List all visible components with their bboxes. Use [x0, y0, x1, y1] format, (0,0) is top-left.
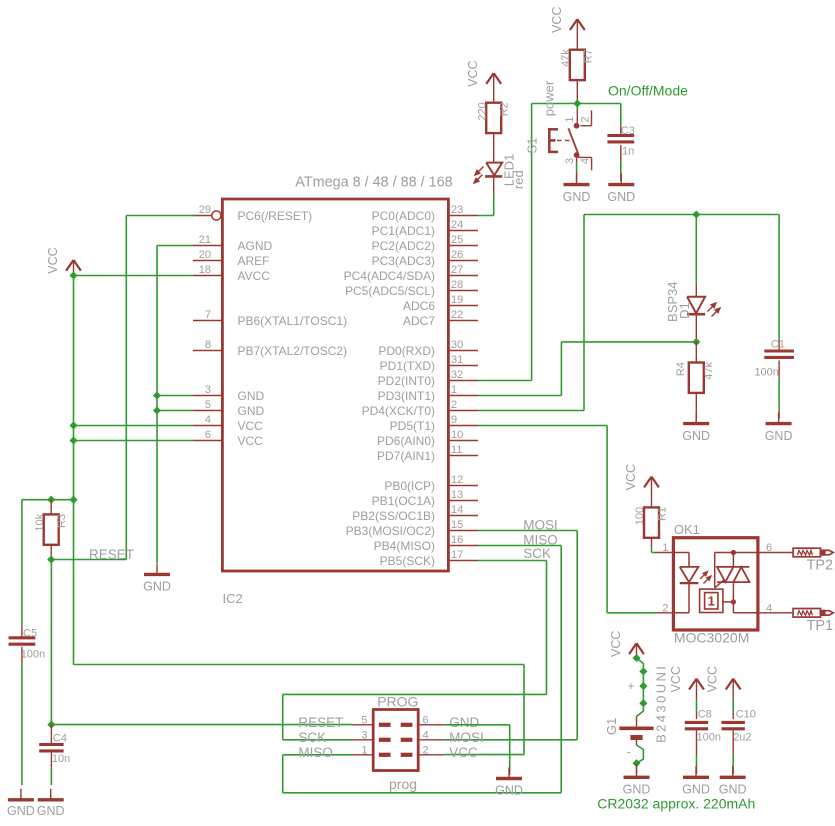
PROG pin 2 VCC: [418, 754, 444, 756]
resistor R1 100: [644, 507, 659, 537]
power VCC above C8: [689, 679, 696, 690]
svg-text:D1: D1: [677, 302, 692, 319]
diode LED1 red: [486, 163, 502, 176]
pin 17 PB5(SCK): [448, 560, 478, 562]
OK1 pin 6 internal: [715, 552, 758, 554]
power VCC above R1: [644, 477, 651, 488]
wire AGND vertical: [156, 246, 158, 564]
svg-text:MOSI: MOSI: [523, 518, 558, 533]
svg-text:RESET: RESET: [298, 715, 343, 730]
test point TP1: [793, 609, 833, 618]
wire battery to GND: [636, 763, 638, 774]
resistor R3 10k: [44, 514, 59, 544]
svg-text:TP2: TP2: [807, 558, 834, 574]
svg-text:22: 22: [451, 309, 463, 321]
svg-text:PC4(ADC4/SDA): PC4(ADC4/SDA): [344, 269, 435, 283]
pin 24 PC1(ADC1): [448, 230, 478, 232]
svg-text:S1: S1: [525, 138, 540, 154]
battery G1 B2430UNI: [636, 717, 638, 727]
svg-text:20: 20: [199, 249, 211, 261]
PROG pads row 2: [379, 738, 391, 742]
svg-text:4: 4: [205, 414, 211, 426]
svg-text:220: 220: [476, 102, 488, 120]
svg-text:47k: 47k: [560, 49, 572, 67]
svg-text:C3: C3: [621, 125, 635, 137]
svg-text:R3: R3: [56, 514, 68, 528]
wire D1 top: [695, 215, 697, 284]
svg-text:31: 31: [451, 354, 463, 366]
wire GND to pin 3: [157, 395, 194, 397]
wire MOSI vertical: [576, 531, 578, 740]
svg-text:21: 21: [199, 234, 211, 246]
svg-text:B2430UNI: B2430UNI: [654, 664, 669, 743]
svg-text:R7: R7: [582, 49, 594, 63]
svg-text:PD2(INT0): PD2(INT0): [378, 374, 435, 388]
svg-text:PD0(RXD): PD0(RXD): [378, 344, 435, 358]
node battery bottom junction: [632, 759, 640, 767]
svg-text:VCC: VCC: [624, 464, 638, 490]
svg-text:+: +: [628, 679, 635, 693]
wire GND to pin 5: [157, 410, 194, 412]
ground GND under battery: [636, 766, 638, 777]
pin 28 PC5(ADC5/SCL): [448, 290, 478, 292]
svg-text:8: 8: [205, 339, 211, 351]
pin 4 VCC: [193, 425, 222, 427]
svg-text:12: 12: [451, 474, 463, 486]
svg-text:ATmega 8 / 48 / 88 / 168: ATmega 8 / 48 / 88 / 168: [295, 175, 452, 191]
ground GND below IC: [156, 563, 158, 574]
LED1 emission arrows: [474, 167, 484, 184]
pin 20 AREF: [193, 260, 222, 262]
PROG pin 3 SCK: [352, 739, 373, 741]
svg-text:100: 100: [634, 507, 646, 525]
svg-text:28: 28: [451, 279, 463, 291]
wire C1 to GND: [778, 360, 780, 379]
wire battery jog: [637, 658, 644, 717]
power VCC above C10: [726, 679, 733, 690]
svg-text:3: 3: [564, 158, 576, 164]
resistor R2 220: [486, 103, 501, 133]
OK1 driver box 1: [700, 589, 723, 612]
PROG pin 4 MOSI: [418, 739, 444, 741]
svg-text:10k: 10k: [34, 513, 46, 531]
node C4 junction: [47, 721, 55, 729]
OK1 pin 6 stub to TP2: [758, 552, 793, 554]
svg-text:32: 32: [451, 369, 463, 381]
ground GND under C4: [50, 789, 52, 800]
svg-text:AGND: AGND: [238, 239, 273, 253]
resistor R4 47k: [695, 342, 697, 362]
node R4 junction: [692, 338, 700, 346]
svg-text:17: 17: [451, 549, 463, 561]
pin 9 PD5(T1): [448, 425, 478, 427]
svg-text:27: 27: [451, 264, 463, 276]
svg-text:1: 1: [662, 542, 668, 554]
wire On/Off/Mode right to C3: [577, 103, 621, 105]
ground GND under C10: [732, 766, 734, 777]
svg-text:PB5(SCK): PB5(SCK): [380, 554, 435, 568]
wire RESET horizontal: [51, 559, 126, 561]
pin 25 PC2(ADC2): [448, 245, 478, 247]
svg-text:6: 6: [423, 715, 429, 727]
node RESET junction: [47, 555, 55, 563]
pin 10 PD6(AIN0): [448, 440, 478, 442]
OK1 pin 4 stub to TP1: [758, 612, 793, 614]
pin 31 PD1(TXD): [448, 365, 478, 367]
PROG pin 6 GND: [418, 724, 444, 726]
svg-text:MOSI: MOSI: [449, 730, 484, 745]
wire R3 bottom stub: [50, 545, 52, 560]
ground GND under R4: [695, 413, 697, 424]
svg-text:PD5(T1): PD5(T1): [390, 419, 435, 433]
capacitor C1 100n: [778, 215, 780, 341]
ground GND under S1: [576, 174, 578, 185]
connector PROG box: [373, 710, 418, 771]
node VCC pin6 junction: [69, 436, 77, 444]
switch S1 power: [576, 104, 578, 111]
wire C4 bottom: [50, 753, 52, 768]
pin 13 PB1(OC1A): [448, 500, 478, 502]
svg-text:CR2032 approx. 220mAh: CR2032 approx. 220mAh: [597, 796, 755, 812]
wire VCC to pin 4: [74, 425, 194, 427]
pin 2 PD4(XCK/T0): [448, 410, 478, 412]
wire On/Off/Mode left: [532, 103, 578, 105]
diode D1 BSP34: [687, 297, 705, 313]
svg-text:1: 1: [451, 384, 457, 396]
pin 30 PD0(RXD): [448, 350, 478, 352]
wire RESET down to C4: [50, 560, 52, 725]
svg-text:power: power: [542, 80, 557, 116]
svg-text:PB0(ICP): PB0(ICP): [384, 479, 435, 493]
svg-text:PC2(ADC2): PC2(ADC2): [372, 239, 435, 253]
svg-text:16: 16: [451, 534, 463, 546]
svg-text:IC2: IC2: [223, 591, 243, 606]
svg-text:PD6(AIN0): PD6(AIN0): [377, 434, 435, 448]
wire R7 to junction: [576, 80, 578, 103]
svg-text:GND: GND: [682, 429, 710, 443]
wire C8 top: [696, 700, 698, 712]
wire S1 to GND: [576, 155, 578, 162]
svg-text:PC5(ADC5/SCL): PC5(ADC5/SCL): [345, 284, 435, 298]
svg-text:C5: C5: [23, 627, 37, 639]
wire MISO vertical: [560, 546, 562, 793]
svg-text:7: 7: [205, 309, 211, 321]
svg-text:PD4(XCK/T0): PD4(XCK/T0): [362, 404, 435, 418]
pin 7 PB6(XTAL1/TOSC1): [193, 320, 222, 322]
capacitor C4 10n: [50, 725, 52, 744]
wire battery bottom jog: [636, 740, 638, 745]
D1 emission arrows: [708, 303, 721, 317]
svg-text:100n: 100n: [697, 731, 721, 743]
svg-text:18: 18: [199, 264, 211, 276]
wire VCC to C5 branch: [22, 499, 74, 501]
wire MOSI from pin 15: [478, 530, 577, 532]
wire C10 top: [732, 700, 734, 712]
svg-text:6: 6: [766, 542, 772, 554]
svg-text:29: 29: [199, 204, 211, 216]
wire AGND from pin 21: [157, 245, 194, 247]
svg-text:19: 19: [451, 294, 463, 306]
svg-text:3: 3: [205, 384, 211, 396]
svg-text:R2: R2: [499, 102, 511, 116]
svg-text:PB3(MOSI/OC2): PB3(MOSI/OC2): [346, 524, 435, 538]
svg-text:SCK: SCK: [298, 730, 326, 745]
node GND pin3 junction: [153, 391, 161, 399]
svg-text:15: 15: [451, 519, 463, 531]
ground GND under C5: [20, 789, 22, 800]
svg-text:MISO: MISO: [298, 745, 333, 760]
svg-text:5: 5: [361, 715, 367, 727]
node battery top junction: [632, 654, 640, 662]
svg-text:2: 2: [423, 745, 429, 757]
svg-text:GND: GND: [563, 190, 591, 204]
capacitor C5 100n: [21, 625, 23, 638]
capacitor C10 2u2: [722, 721, 745, 724]
svg-text:13: 13: [451, 489, 463, 501]
pin 29 PC6(/RESET): [193, 215, 212, 217]
svg-text:VCC: VCC: [449, 745, 478, 760]
opto-triac OK1 MOC3020M: [673, 538, 758, 630]
svg-text:MOC3020M: MOC3020M: [674, 630, 749, 646]
svg-text:VCC: VCC: [466, 60, 480, 86]
svg-text:9: 9: [451, 414, 457, 426]
svg-text:C1: C1: [771, 339, 785, 351]
svg-text:C8: C8: [698, 709, 712, 721]
power VCC above R7: [570, 19, 577, 30]
wire SCK down to PROG pin 3: [282, 694, 284, 739]
svg-text:GND: GND: [682, 783, 710, 797]
svg-text:GND: GND: [623, 783, 651, 797]
pin 16 PB4(MISO): [448, 545, 478, 547]
svg-text:GND: GND: [495, 784, 523, 798]
ground GND under C3: [620, 174, 622, 185]
svg-text:PB4(MISO): PB4(MISO): [374, 539, 435, 553]
pin 26 PC3(ADC3): [448, 260, 478, 262]
S1 lever: [568, 128, 578, 153]
resistor R7 47k: [570, 50, 585, 80]
OK1 gate line: [714, 553, 716, 588]
svg-text:prog: prog: [389, 776, 417, 792]
svg-text:GND: GND: [607, 190, 635, 204]
svg-text:-: -: [627, 745, 631, 759]
pin 8 PB7(XTAL2/TOSC2): [193, 350, 222, 352]
svg-text:PB7(XTAL2/TOSC2): PB7(XTAL2/TOSC2): [238, 344, 348, 358]
svg-text:24: 24: [451, 219, 463, 231]
svg-text:PD1(TXD): PD1(TXD): [380, 359, 435, 373]
pin 5 GND: [193, 410, 222, 412]
pin 11 PD7(AIN1): [448, 455, 478, 457]
svg-text:R1: R1: [657, 507, 669, 521]
ground GND under C8: [695, 766, 697, 777]
wire R3 top stub: [50, 500, 52, 515]
wire VCC bottom run to PROG: [74, 664, 525, 666]
svg-text:4: 4: [579, 158, 591, 164]
svg-text:ADC7: ADC7: [403, 314, 435, 328]
node VCC junction left: [69, 271, 77, 279]
PROG pads row 3: [379, 753, 391, 757]
svg-text:PD3(INT1): PD3(INT1): [378, 389, 435, 403]
svg-text:6: 6: [205, 429, 211, 441]
svg-text:C10: C10: [736, 709, 756, 721]
S1 pin 2 bracket: [581, 125, 592, 127]
pin 27 PC4(ADC4/SDA): [448, 275, 478, 277]
pin 32 PD2(INT0): [448, 380, 478, 382]
capacitor C8 100n: [685, 721, 708, 724]
node GND pin5 junction: [153, 406, 161, 414]
svg-text:2: 2: [662, 602, 668, 614]
node D1 top junction: [692, 210, 700, 218]
test point TP2: [793, 548, 833, 557]
svg-text:SCK: SCK: [523, 546, 551, 561]
svg-text:AVCC: AVCC: [238, 269, 271, 283]
svg-text:R4: R4: [675, 362, 687, 376]
node VCC R3 branch junction: [69, 496, 77, 504]
svg-text:23: 23: [451, 204, 463, 216]
svg-text:VCC: VCC: [609, 631, 623, 657]
svg-text:1: 1: [708, 594, 715, 609]
svg-text:11: 11: [451, 444, 462, 456]
pin 1 PD3(INT1): [448, 395, 478, 397]
OK1 LED arrows: [700, 572, 711, 584]
pin 3 GND: [193, 395, 222, 397]
wire PD4 net from pin 2: [478, 410, 584, 412]
wire PROG pin 6 to GND: [444, 724, 509, 726]
wire RESET vertical: [125, 216, 127, 560]
svg-text:PD7(AIN1): PD7(AIN1): [377, 449, 435, 463]
svg-text:G1: G1: [604, 718, 619, 735]
PROG pads row 1: [379, 723, 391, 727]
power VCC above battery: [629, 643, 636, 654]
svg-text:PB1(OC1A): PB1(OC1A): [372, 494, 435, 508]
pin 19 ADC6: [448, 305, 478, 307]
wire C10 bottom: [732, 730, 734, 755]
ground GND under C1: [778, 413, 780, 424]
svg-text:red: red: [511, 170, 526, 189]
svg-text:2: 2: [579, 116, 591, 122]
svg-text:26: 26: [451, 249, 463, 261]
svg-text:VCC: VCC: [238, 434, 264, 448]
svg-text:VCC: VCC: [669, 666, 683, 692]
wire R2 to LED1: [493, 133, 495, 163]
svg-text:30: 30: [451, 339, 463, 351]
wire SCK from pin 17: [478, 560, 547, 562]
svg-text:GND: GND: [765, 429, 793, 443]
svg-text:GND: GND: [143, 580, 171, 594]
svg-text:1: 1: [564, 116, 576, 122]
svg-text:10: 10: [451, 429, 463, 441]
pin 21 AGND: [193, 245, 222, 247]
svg-text:3: 3: [361, 730, 367, 742]
wire On/Off/Mode down to pin 32: [531, 104, 533, 381]
S1 actuator: [548, 128, 558, 153]
OK1 internal LED: [673, 552, 689, 554]
wire VCC vertical left: [73, 276, 75, 665]
svg-text:5: 5: [205, 399, 211, 411]
wire VCC to AVCC pin 18: [74, 275, 194, 277]
svg-text:OK1: OK1: [674, 522, 700, 537]
svg-text:On/Off/Mode: On/Off/Mode: [608, 83, 688, 99]
node S1 junction: [573, 99, 581, 107]
wire SCK vertical: [546, 561, 548, 695]
svg-text:14: 14: [451, 504, 463, 516]
svg-text:2: 2: [451, 399, 457, 411]
svg-text:VCC: VCC: [550, 6, 564, 32]
ground GND under PROG: [508, 768, 510, 779]
wire PD3 net from pin 1: [478, 395, 561, 397]
wire VCC to PROG pin 2: [444, 754, 524, 756]
wire VCC to pin 6: [74, 440, 194, 442]
pin 22 ADC7: [448, 320, 478, 322]
wire R1 to OK1 pin 1: [651, 538, 653, 546]
svg-text:VCC: VCC: [46, 247, 60, 273]
capacitor C3 1n: [620, 104, 622, 126]
svg-text:GND: GND: [449, 715, 479, 730]
pin 6 VCC: [193, 440, 222, 442]
svg-text:ADC6: ADC6: [403, 299, 435, 313]
svg-text:100n: 100n: [754, 366, 778, 378]
svg-text:4: 4: [423, 730, 429, 742]
wire R4 to GND: [695, 393, 697, 412]
S1 pin 4 bracket: [578, 156, 592, 158]
svg-text:25: 25: [451, 234, 463, 246]
wire MISO from pin 16: [478, 545, 561, 547]
svg-text:GND: GND: [7, 804, 35, 818]
svg-text:2u2: 2u2: [733, 731, 751, 743]
svg-text:RESET: RESET: [89, 547, 134, 562]
svg-text:PROG: PROG: [377, 694, 418, 710]
OK1 triac: [717, 567, 733, 582]
svg-text:VCC: VCC: [706, 666, 720, 692]
wire C8 bottom: [696, 730, 698, 755]
svg-text:GND: GND: [238, 389, 265, 403]
svg-text:GND: GND: [719, 783, 747, 797]
svg-text:4: 4: [766, 602, 772, 614]
svg-text:GND: GND: [37, 804, 65, 818]
svg-text:PC3(ADC3): PC3(ADC3): [372, 254, 435, 268]
pin 18 AVCC: [193, 275, 222, 277]
power VCC symbol left: [66, 260, 73, 271]
node VCC pin4 junction: [69, 421, 77, 429]
svg-text:PB2(SS/OC1B): PB2(SS/OC1B): [352, 509, 435, 523]
wire LED1 to pin 23: [493, 176, 495, 193]
svg-text:PB6(XTAL1/TOSC1): PB6(XTAL1/TOSC1): [238, 314, 348, 328]
wire MISO up to PROG pin 1: [282, 755, 284, 793]
wire VCC down to C5: [21, 500, 23, 625]
wire VCC down right of PROG: [523, 665, 525, 755]
PROG pin 5 RESET: [352, 724, 373, 726]
wire RESET from pin 29: [126, 215, 196, 217]
op-amp IC2 ATmega main box: [222, 199, 448, 571]
svg-text:1: 1: [361, 745, 367, 757]
pin 23 PC0(ADC0): [448, 215, 478, 217]
svg-text:VCC: VCC: [238, 419, 264, 433]
wire C3 to GND: [620, 145, 622, 162]
svg-text:GND: GND: [238, 404, 265, 418]
svg-text:PC0(ADC0): PC0(ADC0): [372, 209, 435, 223]
wire MISO bottom: [283, 792, 562, 794]
wire PD5 net from pin 9: [478, 425, 607, 427]
pin 12 PB0(ICP): [448, 485, 478, 487]
svg-text:TP1: TP1: [807, 618, 834, 634]
svg-text:10n: 10n: [52, 753, 70, 765]
OK1 pin 2 stub: [655, 612, 673, 614]
svg-text:1n: 1n: [622, 145, 634, 157]
svg-text:PC6(/RESET): PC6(/RESET): [238, 209, 313, 223]
wire RESET to PROG pin 5: [51, 724, 352, 726]
wire D1 bottom: [695, 314, 697, 339]
svg-text:AREF: AREF: [238, 254, 270, 268]
pin 14 PB2(SS/OC1B): [448, 515, 478, 517]
